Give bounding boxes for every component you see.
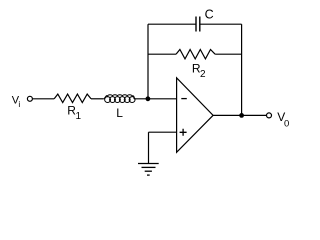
capacitor C	[196, 17, 200, 32]
wire non-inverting input	[149, 131, 177, 133]
node A junction dot (feedback tap)	[146, 96, 151, 101]
wire left feedback vertical	[147, 24, 149, 99]
wire right feedback vertical	[241, 24, 243, 115]
svg-text:C: C	[205, 7, 214, 21]
wire L to op-amp inverting input	[134, 98, 177, 100]
wire down to ground	[148, 132, 150, 163]
wire R1 to L	[91, 98, 104, 100]
svg-text:0: 0	[284, 119, 289, 130]
op-amp minus sign	[181, 98, 187, 100]
wire R2 to right vertical	[215, 53, 242, 55]
wire left vertical to R2	[148, 53, 176, 55]
svg-text:L: L	[116, 106, 123, 120]
resistor R1	[54, 94, 91, 103]
node B output junction dot	[239, 113, 244, 118]
node Vo output terminal	[267, 113, 272, 118]
svg-text:2: 2	[200, 69, 206, 80]
wire top to capacitor	[148, 23, 196, 25]
wire op-amp output	[213, 114, 266, 116]
inductor L	[104, 95, 135, 103]
ground	[138, 164, 159, 176]
node Vi input terminal	[27, 96, 32, 101]
svg-text:1: 1	[76, 111, 82, 122]
svg-text:i: i	[18, 99, 20, 109]
wire Vi to R1	[33, 98, 55, 100]
op-amp U1	[177, 78, 214, 153]
op-amp plus sign	[180, 129, 187, 136]
wire capacitor to right vertical	[200, 23, 242, 25]
resistor R2	[176, 50, 215, 59]
